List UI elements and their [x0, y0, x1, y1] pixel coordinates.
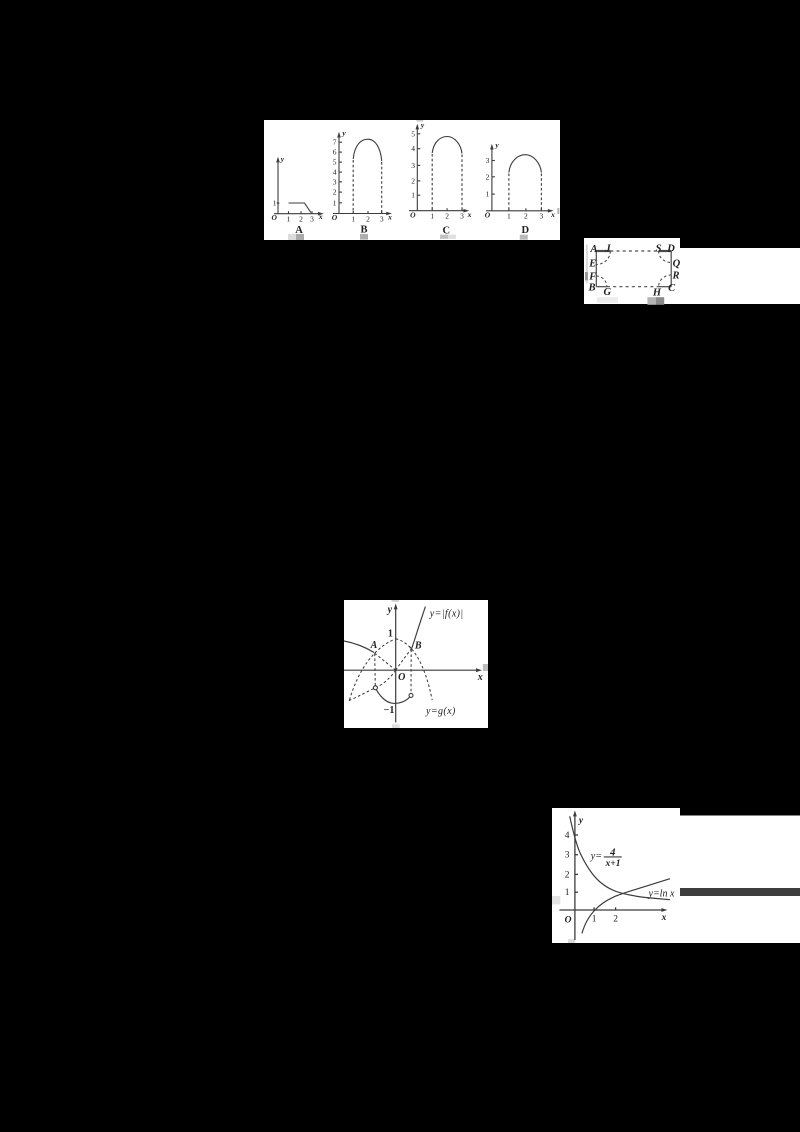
segment BG	[596, 286, 607, 288]
segment AJ	[596, 250, 610, 252]
graph A x-axis	[274, 213, 321, 215]
gray nub bottom of y-axis	[392, 724, 400, 728]
graph B labels	[332, 129, 392, 224]
svg-text:3: 3	[486, 156, 490, 165]
svg-text:x: x	[550, 210, 555, 219]
graph B dashed vertical x=1	[352, 160, 354, 214]
svg-text:y: y	[341, 129, 346, 138]
dashed fold arc F to G	[596, 276, 607, 287]
svg-text:F: F	[588, 271, 596, 282]
graph B y ticks	[339, 141, 342, 143]
panel 3: y=|f(x)| and y=g(x) graph	[344, 600, 488, 728]
graph D labels	[485, 140, 555, 220]
svg-text:x: x	[477, 672, 483, 683]
dashed segment origin to A	[374, 653, 396, 670]
dashed vertical A to circle	[374, 654, 377, 686]
gray box under B	[360, 234, 368, 240]
svg-text:2: 2	[524, 212, 528, 221]
gray streak left edge darker	[585, 272, 588, 280]
gray tick at panel right edge near D arrow	[557, 208, 559, 214]
svg-text:2: 2	[333, 188, 337, 197]
graph B y-axis	[338, 136, 340, 214]
x-axis arrow	[661, 908, 667, 912]
dashed fold arc R to H	[659, 275, 672, 287]
y-axis arrow	[394, 603, 398, 609]
graph D x ticks	[508, 208, 510, 211]
svg-text:Q: Q	[673, 258, 681, 269]
svg-text:O: O	[485, 211, 491, 220]
gray nub top of y-axis	[392, 600, 400, 602]
dashed segment GH	[607, 286, 659, 288]
svg-text:5: 5	[411, 129, 415, 138]
svg-text:S: S	[656, 243, 662, 254]
svg-text:x: x	[318, 212, 323, 221]
gray nub above graph C axis	[417, 120, 424, 122]
svg-text:O: O	[271, 213, 277, 222]
svg-text:2: 2	[411, 176, 415, 185]
dashed segment origin to B	[396, 649, 412, 670]
svg-text:x: x	[387, 212, 392, 221]
graph C x-axis	[409, 210, 466, 212]
open circle on g at B'	[409, 693, 413, 697]
graph A y-axis	[277, 161, 279, 214]
svg-text:4: 4	[411, 144, 415, 153]
x-axis	[344, 669, 479, 671]
svg-text:y=g(x): y=g(x)	[425, 706, 456, 717]
svg-text:y: y	[494, 140, 499, 149]
panel 4: y=4/(x+1) and y=ln x graph	[552, 808, 800, 943]
graph D y-axis	[491, 148, 493, 211]
svg-text:y=|f(x)|: y=|f(x)|	[429, 609, 464, 620]
graph C dashed vertical x=3	[461, 155, 463, 211]
graph C x-axis arrow	[463, 209, 469, 213]
svg-text:y=ln x: y=ln x	[648, 888, 675, 899]
graph D y-axis arrow	[490, 144, 494, 150]
svg-text:A: A	[370, 640, 378, 651]
label y=4/(x+1)	[590, 848, 621, 869]
graph C y-axis arrow	[416, 124, 420, 130]
light gray box under G	[597, 297, 618, 303]
fraction bar	[604, 856, 622, 858]
graph D x-axis arrow	[548, 209, 554, 213]
graph C labels	[410, 121, 472, 221]
axis number labels	[565, 816, 667, 926]
segment SD	[659, 250, 672, 252]
svg-text:y=: y=	[590, 851, 602, 862]
svg-text:E: E	[588, 258, 596, 269]
svg-text:3: 3	[565, 851, 570, 861]
solid arc y=g(x) between open circles	[376, 690, 410, 704]
svg-text:O: O	[332, 213, 338, 222]
svg-text:y: y	[578, 816, 584, 826]
svg-text:O: O	[398, 672, 405, 683]
graph B arch curve	[353, 139, 382, 161]
svg-text:R: R	[671, 271, 679, 282]
dashed g(x) branch through left circle	[348, 670, 396, 701]
svg-text:2: 2	[445, 212, 449, 221]
gray box under H	[647, 297, 656, 305]
vertex labels	[587, 243, 680, 298]
svg-text:B: B	[414, 641, 422, 652]
solid curve upper left (y=|f(x)| left branch)	[344, 641, 374, 653]
y ticks	[575, 834, 578, 836]
svg-text:6: 6	[333, 148, 337, 157]
gray box under A	[288, 234, 296, 240]
svg-text:x+1: x+1	[605, 859, 621, 869]
graph B dashed vertical x=3	[381, 162, 383, 214]
dashed bell curve left arm	[349, 639, 395, 700]
svg-text:3: 3	[310, 215, 314, 224]
graph D y ticks	[492, 160, 495, 162]
svg-text:2: 2	[486, 172, 490, 181]
y-axis arrow	[573, 810, 577, 816]
svg-text:B: B	[587, 282, 595, 293]
svg-text:1: 1	[273, 199, 277, 208]
svg-text:−1: −1	[384, 705, 395, 716]
solid curve y=|f(x)| rising from B	[409, 607, 425, 649]
graph D dashed vertical x=3	[540, 174, 542, 211]
graph C arch curve	[432, 137, 462, 154]
svg-text:3: 3	[380, 215, 384, 224]
svg-text:D: D	[522, 225, 530, 236]
svg-text:1: 1	[486, 190, 490, 199]
graph C y ticks	[417, 133, 420, 135]
graph A x ticks	[288, 211, 290, 214]
graph B x ticks	[352, 211, 354, 214]
graph A labels	[271, 155, 322, 224]
curve y=ln x	[582, 879, 670, 934]
graph D arch curve	[509, 155, 542, 173]
dashed fold arc J to E	[596, 251, 610, 265]
gray box under D	[520, 235, 528, 240]
x-axis arrow	[476, 668, 482, 672]
svg-text:1: 1	[565, 888, 570, 898]
x ticks	[593, 907, 595, 910]
svg-text:C: C	[668, 283, 676, 294]
panel 2: folded rectangle diagram ABCD	[584, 238, 800, 306]
graph C x ticks	[431, 208, 433, 211]
svg-text:A: A	[589, 244, 597, 255]
svg-text:4: 4	[333, 168, 337, 177]
svg-text:7: 7	[333, 138, 337, 147]
graph D dashed vertical x=1	[508, 174, 510, 211]
graph A y-axis arrow	[276, 157, 280, 163]
panel 2 white main strip	[584, 248, 800, 304]
side DC	[670, 251, 672, 287]
graph B x-axis	[333, 213, 389, 215]
svg-text:1: 1	[592, 915, 597, 925]
svg-text:B: B	[360, 225, 367, 236]
svg-text:3: 3	[460, 212, 464, 221]
svg-text:3: 3	[333, 177, 337, 186]
svg-text:1: 1	[333, 198, 337, 207]
svg-text:y: y	[280, 155, 285, 164]
svg-text:5: 5	[333, 158, 337, 167]
svg-text:x: x	[661, 913, 667, 923]
svg-text:O: O	[410, 210, 416, 219]
curve y=4/(x+1)	[570, 816, 670, 899]
dashed bell curve right arm	[396, 639, 433, 700]
graph C dashed vertical x=1	[431, 154, 433, 211]
x-axis	[559, 909, 664, 911]
y-axis	[574, 814, 576, 940]
svg-text:H: H	[652, 288, 662, 299]
gray nub bottom of y-axis	[568, 939, 575, 943]
side AB	[595, 251, 597, 287]
panel 1 white background	[264, 120, 560, 240]
graph A x-axis arrow	[318, 212, 324, 216]
segment HC	[659, 286, 672, 288]
svg-text:1: 1	[411, 191, 415, 200]
graph B x-axis arrow	[386, 212, 392, 216]
gray streak left edge	[586, 245, 588, 284]
gray box under C	[440, 235, 448, 239]
gray tick right edge	[483, 664, 488, 671]
graph D x-axis	[486, 210, 551, 212]
svg-text:4: 4	[565, 831, 570, 841]
svg-text:1: 1	[430, 212, 434, 221]
svg-text:2: 2	[565, 870, 570, 880]
open circle on g at A'	[373, 686, 377, 690]
graph B y-axis arrow	[337, 132, 341, 138]
gray nub left edge	[552, 896, 560, 904]
svg-text:x: x	[467, 210, 472, 219]
panel 4 white background	[552, 808, 800, 943]
svg-text:J: J	[604, 243, 611, 254]
svg-text:G: G	[604, 287, 612, 298]
graph A tick y=1	[277, 202, 280, 204]
svg-text:2: 2	[613, 915, 618, 925]
svg-text:1: 1	[388, 628, 393, 639]
dashed fold arc S to Q	[659, 251, 672, 263]
svg-text:2: 2	[299, 215, 303, 224]
svg-text:y: y	[420, 121, 425, 130]
graph C y-axis	[416, 128, 418, 211]
black notch top right	[680, 808, 800, 816]
svg-text:3: 3	[411, 161, 415, 170]
graph A curve	[289, 203, 312, 213]
dark bar right of ln label	[680, 888, 800, 896]
svg-text:1: 1	[351, 215, 355, 224]
labels	[370, 605, 483, 717]
svg-text:3: 3	[540, 212, 544, 221]
svg-text:D: D	[666, 244, 675, 255]
panel 2 white tab	[584, 238, 680, 249]
panel 1: four answer graphs A B C D	[264, 120, 560, 240]
panel 3 white background	[344, 600, 488, 728]
svg-text:O: O	[565, 916, 572, 926]
dashed vertical B to circle	[410, 650, 412, 694]
svg-text:2: 2	[366, 215, 370, 224]
svg-text:y: y	[387, 605, 393, 616]
y-axis	[395, 607, 397, 722]
svg-text:1: 1	[287, 215, 291, 224]
svg-text:1: 1	[507, 212, 511, 221]
dashed segment JS	[610, 250, 658, 252]
